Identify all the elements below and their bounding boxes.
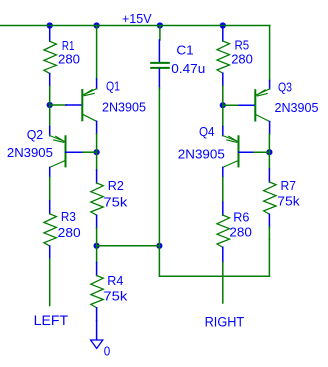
svg-text:+15V: +15V [122, 11, 152, 26]
wire rail corner to Q3 emitter [269, 26, 271, 81]
wire R3 to LEFT terminal [49, 259, 51, 306]
wire rail to Q1 emitter [96, 26, 98, 80]
svg-text:R2: R2 [108, 178, 124, 193]
wire Q2 collector to R3 [49, 178, 51, 201]
wire R1 to node A [49, 87, 51, 106]
transistor Q2 2N3905 [7, 127, 83, 178]
svg-text:2N3905: 2N3905 [7, 145, 53, 160]
svg-text:280: 280 [58, 225, 81, 240]
wire R6 to RIGHT terminal [222, 263, 224, 304]
wire node D down and right to R7 [159, 239, 269, 276]
node F dot Q3coll-Q4base-R7 [266, 149, 272, 155]
svg-text:0: 0 [104, 344, 111, 358]
node dot rail-R5 [220, 22, 226, 28]
svg-text:R4: R4 [107, 273, 123, 288]
svg-text:280: 280 [231, 51, 253, 66]
svg-text:280: 280 [229, 224, 252, 239]
svg-text:75k: 75k [277, 194, 300, 209]
svg-text:75k: 75k [103, 288, 127, 303]
node dot rail-R1 [47, 22, 53, 28]
wire R2 to node C [96, 228, 98, 246]
svg-text:280: 280 [58, 51, 80, 66]
wire R5 to node E [222, 86, 224, 105]
wire C1 to node D [158, 88, 160, 246]
resistor R1 [44, 27, 80, 87]
svg-text:2N3905: 2N3905 [178, 147, 225, 162]
svg-text:R6: R6 [233, 209, 249, 224]
svg-text:2N3905: 2N3905 [275, 100, 319, 115]
svg-text:75k: 75k [103, 194, 127, 209]
wire node A to Q2 emitter [49, 105, 51, 127]
resistor R3 [44, 201, 81, 259]
node C dot R2-R4-mid [94, 243, 100, 249]
wire R4 to ground [96, 321, 98, 340]
node A dot R1-Q1base-Q2emitter [47, 102, 53, 108]
node dot rail-C1 [157, 22, 163, 28]
wire Q3 collector to node F [268, 134, 270, 152]
transistor Q4 2N3905 [178, 124, 254, 177]
ground symbol [91, 340, 111, 358]
node D dot C1-mid [156, 243, 162, 249]
svg-text:LEFT: LEFT [34, 313, 68, 328]
resistor R2 [91, 152, 128, 228]
svg-text:R7: R7 [281, 178, 297, 193]
capacitor C1 [151, 26, 205, 89]
resistor R5 [217, 27, 253, 87]
svg-text:Q3: Q3 [278, 79, 292, 94]
wire Q2 base to node B [83, 151, 97, 153]
wire Q4 base to node F [254, 151, 269, 153]
node E dot R5-Q3base-Q4emitter [220, 102, 226, 108]
wire node E to Q4 emitter [222, 105, 224, 126]
svg-text:R3: R3 [61, 209, 76, 224]
svg-text:C1: C1 [176, 43, 193, 58]
node dot rail-Q1emitter [94, 22, 100, 28]
wire +15V rail [0, 25, 270, 27]
resistor R7 [264, 152, 301, 227]
transistor Q3 2N3905 [239, 79, 319, 134]
resistor R4 [91, 246, 128, 321]
wire R7 to corner [268, 227, 270, 239]
resistor R6 [217, 202, 252, 262]
wire Q4 collector to R6 [222, 178, 224, 203]
wire node A to Q1 base [50, 104, 66, 106]
wire node E to Q3 base [223, 104, 239, 106]
wire Q1 collector to node B [96, 134, 98, 152]
wire node C to node D [97, 245, 160, 247]
svg-text:Q4: Q4 [199, 124, 215, 139]
svg-text:RIGHT: RIGHT [205, 314, 245, 329]
svg-text:Q1: Q1 [106, 78, 120, 93]
transistor Q1 2N3905 [66, 78, 146, 133]
svg-text:0.47u: 0.47u [171, 61, 205, 76]
svg-text:2N3905: 2N3905 [102, 99, 146, 114]
svg-text:Q2: Q2 [27, 127, 44, 142]
node B dot Q1coll-Q2base-R2 [94, 149, 100, 155]
svg-text:R5: R5 [235, 37, 250, 52]
